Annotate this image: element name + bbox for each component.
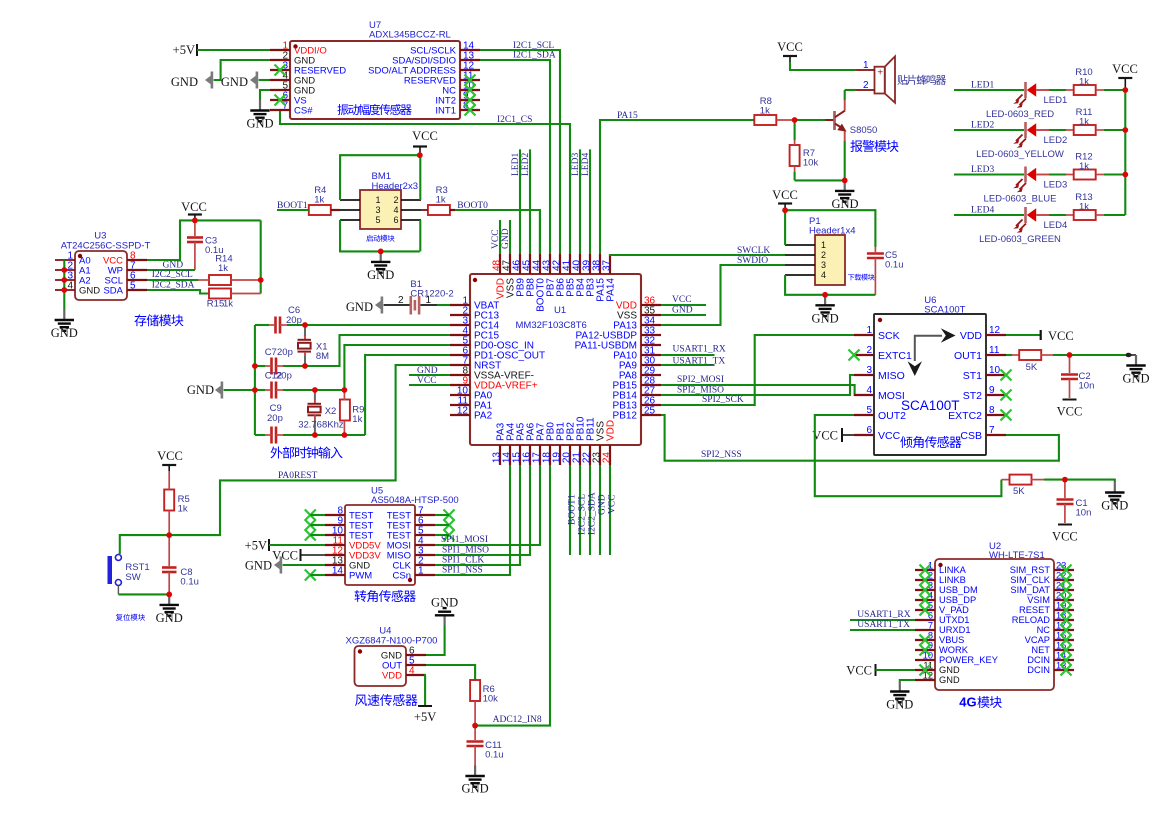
no-connect X U2.8 <box>920 635 931 646</box>
svg-text:6: 6 <box>866 425 872 436</box>
svg-text:XGZ6847-N100-P700: XGZ6847-N100-P700 <box>346 636 438 647</box>
wire osc left rail <box>254 325 256 435</box>
wire net SWCLK <box>610 254 785 255</box>
resistor R12 <box>1074 170 1096 180</box>
IC U5 body <box>345 505 415 585</box>
svg-text:+5V: +5V <box>245 539 267 553</box>
svg-text:LED2: LED2 <box>521 153 531 176</box>
wire net I2C2_SCL <box>579 465 581 555</box>
label alarm-module <box>850 140 898 152</box>
svg-text:GND: GND <box>367 268 394 282</box>
ground P1 <box>824 295 826 306</box>
svg-text:PA2: PA2 <box>474 411 493 422</box>
svg-text:1k: 1k <box>178 504 188 515</box>
wire U1.47 GND <box>509 220 511 254</box>
svg-text:VCC: VCC <box>491 229 501 249</box>
svg-text:PA15: PA15 <box>617 111 638 121</box>
wire LED vcc rail <box>1124 90 1126 215</box>
no-connect X U2.18 <box>1061 615 1072 626</box>
svg-text:20p: 20p <box>277 347 293 358</box>
svg-text:V_PAD: V_PAD <box>939 605 969 615</box>
wire sw bottom <box>118 593 169 595</box>
svg-text:12: 12 <box>989 325 1001 336</box>
svg-text:14: 14 <box>332 566 344 577</box>
P1 pins <box>785 244 815 246</box>
no-connect X U2.23 <box>1061 565 1072 576</box>
svg-text:PA14: PA14 <box>606 278 617 302</box>
no-connect X U7.8 <box>465 105 476 116</box>
svg-text:SPI1_CLK: SPI1_CLK <box>442 556 484 566</box>
svg-text:RELOAD: RELOAD <box>1012 615 1051 625</box>
wire led-res LED4 <box>1049 214 1066 216</box>
svg-text:EXTC1: EXTC1 <box>878 350 912 362</box>
ground C11 <box>474 766 476 777</box>
resistor R7 <box>790 145 800 166</box>
svg-text:VSIM: VSIM <box>1027 595 1050 605</box>
wire U1.23 gnd <box>599 465 601 555</box>
capacitor C8 <box>168 535 170 566</box>
svg-text:SCK: SCK <box>878 330 900 342</box>
ground BM1 <box>380 251 382 262</box>
header P1 body <box>815 235 845 285</box>
no-connect X U5.10 <box>305 530 316 541</box>
label smd-buzzer <box>897 75 946 85</box>
wire net I2C2_SDA <box>589 465 591 555</box>
svg-text:SDA: SDA <box>103 286 123 297</box>
no-connect X U2.9 <box>920 645 931 656</box>
svg-text:1k: 1k <box>223 299 233 310</box>
wire U4 gnd <box>426 625 445 655</box>
wire B1 gnd side <box>384 304 410 306</box>
svg-text:1k: 1k <box>436 195 446 206</box>
svg-text:POWER_KEY: POWER_KEY <box>939 655 998 665</box>
svg-text:ST2: ST2 <box>963 390 982 402</box>
svg-text:11: 11 <box>989 345 1000 356</box>
U6 left pins <box>854 334 874 336</box>
svg-text:AT24C256C-SSPD-T: AT24C256C-SSPD-T <box>61 241 151 252</box>
ground U7.5 <box>259 100 261 111</box>
no-connect X U7.3 <box>275 65 286 76</box>
svg-text:LED-0603_GREEN: LED-0603_GREEN <box>979 234 1061 245</box>
svg-text:GND: GND <box>462 782 489 796</box>
svg-text:LED4: LED4 <box>971 206 994 216</box>
wire net LED1 <box>519 149 521 254</box>
svg-text:NC: NC <box>1037 625 1051 635</box>
resistor R5 <box>164 490 174 511</box>
no-connect X U7.6 <box>275 95 286 106</box>
no-connect X U2.16 <box>1061 635 1072 646</box>
svg-text:32.768Khz: 32.768Khz <box>298 420 344 431</box>
wire U2.12 gnd <box>900 680 915 681</box>
LED LED4 <box>1024 207 1027 223</box>
svg-text:VCC: VCC <box>878 430 901 442</box>
svg-text:VCC: VCC <box>1057 405 1083 419</box>
svg-text:20p: 20p <box>276 371 292 382</box>
svg-text:0.1u: 0.1u <box>485 750 504 761</box>
wire net SPI2_NSS <box>661 415 1059 461</box>
U5 left pins <box>325 514 345 516</box>
svg-text:10k: 10k <box>483 694 499 705</box>
no-connect X U5.7 <box>444 510 455 521</box>
svg-text:SWDIO: SWDIO <box>737 256 768 266</box>
svg-text:GND: GND <box>598 494 608 515</box>
wire C6 to U1.3 <box>287 324 450 326</box>
no-connect X U2.14 <box>1061 655 1072 666</box>
svg-text:7: 7 <box>928 621 933 631</box>
svg-text:OUT1: OUT1 <box>954 350 982 362</box>
resistor R9 <box>340 400 350 421</box>
svg-text:1: 1 <box>418 566 424 577</box>
junction led3 <box>1122 172 1128 178</box>
svg-text:SPI1_MOSI: SPI1_MOSI <box>441 535 488 545</box>
svg-text:GND: GND <box>187 383 214 397</box>
junction R5 bottom <box>166 532 172 538</box>
IC U2 body <box>935 559 1054 690</box>
junction led2 <box>1122 127 1128 133</box>
svg-text:USB_DM: USB_DM <box>939 585 978 595</box>
U1 bottom pins <box>499 445 501 465</box>
svg-text:LED-0603_RED: LED-0603_RED <box>986 109 1054 120</box>
wire U4 out <box>426 665 475 680</box>
U1 left pins <box>450 304 470 306</box>
resistor R13 <box>1074 210 1096 220</box>
wire net BOOT1 <box>569 465 571 555</box>
svg-text:GND: GND <box>1122 372 1149 386</box>
svg-text:8: 8 <box>989 405 995 416</box>
wire osc bottom row <box>283 434 365 436</box>
svg-text:SPI2_MOSI: SPI2_MOSI <box>677 375 724 385</box>
svg-text:VCC: VCC <box>772 188 798 202</box>
junction BM1 gnd <box>378 249 384 255</box>
wire net I2C1_SCL <box>480 50 560 254</box>
label rotation-sensor <box>355 590 416 602</box>
svg-text:LED1: LED1 <box>511 153 521 176</box>
BM1 label boot-module <box>366 235 394 242</box>
junction C2 top <box>1067 352 1073 358</box>
capacitor C3 <box>194 220 196 236</box>
svg-text:4: 4 <box>67 281 73 292</box>
svg-text:10n: 10n <box>1079 381 1095 392</box>
U1 right pins <box>641 304 661 306</box>
svg-text:LED2: LED2 <box>971 121 994 131</box>
ground alarm <box>844 180 846 191</box>
svg-text:VCC: VCC <box>672 295 692 305</box>
wire X1 to U1.4 <box>283 335 450 366</box>
svg-text:NET: NET <box>1031 645 1050 655</box>
wire collector <box>844 90 846 100</box>
IC U6 body <box>874 314 986 455</box>
resistor R11 <box>1074 125 1096 135</box>
no-connect X U2.13 <box>1061 665 1072 676</box>
no-connect X U5.8 <box>305 510 316 521</box>
svg-text:VCAP: VCAP <box>1025 635 1050 645</box>
U7 label vibration-sensor <box>337 104 411 115</box>
no-connect X U5.14 <box>305 570 316 581</box>
svg-text:SWCLK: SWCLK <box>737 246 770 256</box>
wire U1.35 GND <box>661 314 706 316</box>
capacitor C2 <box>1069 355 1071 373</box>
svg-text:USART1_TX: USART1_TX <box>857 620 910 630</box>
svg-text:SIM_RST: SIM_RST <box>1010 565 1051 575</box>
svg-text:SPI1_NSS: SPI1_NSS <box>442 566 483 576</box>
wire P1 vcc rail <box>784 209 786 246</box>
wire net USART1_RX u2 <box>850 619 915 621</box>
svg-text:4: 4 <box>393 205 398 215</box>
svg-text:3: 3 <box>821 260 826 270</box>
svg-text:X2: X2 <box>325 406 337 417</box>
transistor Q1 S8050 <box>833 111 836 130</box>
wire U7.4 to GND <box>259 79 270 81</box>
wire U1.5 to R9 <box>344 345 450 390</box>
wire BM1 right rail <box>419 155 421 200</box>
U6 right pins <box>986 334 1006 336</box>
svg-text:LED-0603_YELLOW: LED-0603_YELLOW <box>976 149 1064 160</box>
svg-text:VCC: VCC <box>181 200 207 214</box>
no-connect X U7.11 <box>465 75 476 86</box>
svg-text:GND: GND <box>163 261 184 271</box>
svg-text:SPI1_MISO: SPI1_MISO <box>442 546 489 556</box>
svg-text:1k: 1k <box>1079 117 1089 128</box>
svg-text:S8050: S8050 <box>850 125 877 136</box>
ground out2 <box>1114 482 1116 493</box>
svg-text:USB_DP: USB_DP <box>939 595 976 605</box>
U3 left pins <box>55 259 75 261</box>
svg-text:DCIN: DCIN <box>1027 665 1050 675</box>
svg-text:USART1_RX: USART1_RX <box>673 345 726 355</box>
junction led1 <box>1122 87 1128 93</box>
svg-text:4: 4 <box>866 385 872 396</box>
resistor R10 <box>1074 85 1096 95</box>
svg-text:I2C2_SDA: I2C2_SDA <box>152 281 195 291</box>
no-connect X U6.10 <box>1001 370 1012 381</box>
svg-text:GND: GND <box>245 559 272 573</box>
junction U3 a2 <box>61 277 67 283</box>
svg-text:1: 1 <box>821 240 826 250</box>
no-connect X U2.21 <box>1061 585 1072 596</box>
svg-text:WORK: WORK <box>939 645 969 655</box>
svg-text:7: 7 <box>989 425 995 436</box>
svg-text:BOOT1: BOOT1 <box>568 494 578 525</box>
wire base <box>795 119 826 121</box>
junction R14 right <box>258 277 264 283</box>
svg-text:+5V: +5V <box>414 710 436 724</box>
wire net PA15 <box>600 120 754 254</box>
svg-text:GND: GND <box>51 326 78 340</box>
label wind-sensor <box>355 694 418 706</box>
svg-text:VCC: VCC <box>608 494 618 514</box>
no-connect X U6.9 <box>1001 390 1012 401</box>
no-connect X U7.10 <box>465 85 476 96</box>
capacitor C7 <box>270 358 273 375</box>
no-connect X U2.19 <box>1061 605 1072 616</box>
header BM1 body <box>360 190 401 229</box>
svg-text:GND: GND <box>79 286 100 297</box>
no-connect X U6.8 <box>1001 410 1012 421</box>
wire U1.24 vcc <box>609 465 611 555</box>
capacitor C6 <box>274 317 277 334</box>
junction X1 bottom <box>302 363 308 369</box>
svg-text:25: 25 <box>644 406 656 417</box>
junction U3 a1 <box>61 267 67 273</box>
svg-text:SIM_DAT: SIM_DAT <box>1010 585 1050 595</box>
capacitor C1 <box>1064 480 1066 498</box>
svg-text:SPI2_SCK: SPI2_SCK <box>702 395 744 405</box>
IC U1 body <box>470 274 641 445</box>
svg-text:VCC: VCC <box>417 376 437 386</box>
svg-text:SCA100T: SCA100T <box>924 305 965 316</box>
svg-text:5: 5 <box>130 281 136 292</box>
svg-text:ADC12_IN8: ADC12_IN8 <box>493 715 542 725</box>
svg-text:SW: SW <box>125 572 140 583</box>
wire out1 <box>1070 354 1126 356</box>
svg-text:GND: GND <box>156 611 183 625</box>
wire U3 left tie <box>63 260 65 310</box>
wire P1 gnd rail <box>785 275 875 295</box>
no-connect X U2.4 <box>920 595 931 606</box>
svg-text:Header1x4: Header1x4 <box>809 226 855 237</box>
svg-text:R15: R15 <box>207 299 224 310</box>
svg-text:+: + <box>877 68 883 79</box>
crystal X1 <box>304 325 306 336</box>
wire U6.5 out2 <box>815 415 1002 496</box>
LED LED3 <box>1024 167 1027 183</box>
no-connect X U2.3 <box>920 585 931 596</box>
wire emitter <box>844 141 846 180</box>
label ext-clock-input <box>270 446 342 458</box>
resistor R3 <box>428 205 450 215</box>
svg-text:10n: 10n <box>1076 508 1092 519</box>
wire net LED2 <box>954 129 1024 131</box>
no-connect X U2.17 <box>1061 625 1072 636</box>
junction C8 bottom <box>166 592 172 598</box>
svg-text:10: 10 <box>989 365 1001 376</box>
svg-text:CSn: CSn <box>393 571 411 582</box>
svg-text:2: 2 <box>866 345 872 356</box>
wire net I2C1_SDA <box>480 60 550 254</box>
no-connect X U2.22 <box>1061 575 1072 586</box>
IC U3 body <box>75 251 127 300</box>
svg-text:I2C2_SCL: I2C2_SCL <box>152 270 193 280</box>
svg-text:1k: 1k <box>1079 77 1089 88</box>
svg-text:BOOT1: BOOT1 <box>277 201 308 211</box>
junction U3 gnd <box>61 287 67 293</box>
junction X2 bottom <box>312 432 318 438</box>
svg-text:5K: 5K <box>1026 362 1038 373</box>
switch RST1 <box>108 556 113 584</box>
svg-text:VCC: VCC <box>846 664 872 678</box>
svg-text:LINKB: LINKB <box>939 575 966 585</box>
svg-text:WH-LTE-7S1: WH-LTE-7S1 <box>989 550 1045 561</box>
wire U4 vdd <box>424 675 427 705</box>
crystal X2 <box>314 390 316 400</box>
svg-text:37: 37 <box>602 259 613 271</box>
resistor R17 5K <box>1001 479 1010 481</box>
svg-text:LED2: LED2 <box>1044 135 1068 146</box>
LED LED1 <box>1024 82 1027 98</box>
junction P1 vcc <box>782 207 788 213</box>
svg-text:I2C2_SDA: I2C2_SDA <box>588 492 598 535</box>
svg-text:GND: GND <box>417 366 438 376</box>
junction rail C12 <box>252 387 258 393</box>
ground U3 <box>63 310 65 321</box>
svg-text:MM32F103C8T6: MM32F103C8T6 <box>516 320 587 331</box>
no-connect X U5.9 <box>305 520 316 531</box>
svg-text:VCC: VCC <box>272 549 298 563</box>
svg-text:VCC: VCC <box>1112 62 1138 76</box>
resistor R4 <box>309 205 331 215</box>
wire gnd to rail <box>224 389 255 391</box>
svg-text:+5V: +5V <box>173 43 195 57</box>
svg-text:GND: GND <box>939 675 960 685</box>
label download-module <box>848 274 875 281</box>
svg-text:VCC: VCC <box>1048 329 1074 343</box>
svg-text:CS#: CS# <box>294 106 313 117</box>
junction BM1 vcc <box>417 152 423 158</box>
speaker buzzer LS1 <box>875 67 885 94</box>
svg-text:USART1_TX: USART1_TX <box>673 357 726 367</box>
junction R9 top <box>342 387 348 393</box>
svg-text:GND: GND <box>246 117 273 131</box>
svg-text:ADXL345BCCZ-RL: ADXL345BCCZ-RL <box>369 30 451 41</box>
svg-text:GND: GND <box>939 665 960 675</box>
wire net LED3 <box>579 149 581 254</box>
capacitor C11 <box>474 726 476 740</box>
svg-text:VDD: VDD <box>382 671 402 682</box>
IC U7 body <box>290 41 460 119</box>
svg-text:LED1: LED1 <box>971 81 994 91</box>
svg-text:LED4: LED4 <box>1044 220 1068 231</box>
svg-text:CSB: CSB <box>960 430 982 442</box>
svg-text:5K: 5K <box>1013 486 1025 497</box>
svg-text:LED3: LED3 <box>571 153 581 176</box>
wire net LED4 <box>954 214 1024 216</box>
svg-text:4: 4 <box>409 666 415 677</box>
svg-text:6: 6 <box>393 215 398 225</box>
svg-text:SPI2_MISO: SPI2_MISO <box>677 386 724 396</box>
svg-text:SIM_CLK: SIM_CLK <box>1010 575 1051 585</box>
svg-text:1k: 1k <box>352 414 362 425</box>
svg-text:24: 24 <box>602 452 613 464</box>
no-connect X U6.2 <box>849 350 860 361</box>
wire net SPI1_CLK <box>435 465 520 565</box>
svg-text:1: 1 <box>866 325 872 336</box>
wire U1.8 GND <box>409 374 450 376</box>
wire net SPI2_SCK <box>661 335 858 405</box>
wire led-res LED1 <box>1049 89 1066 91</box>
svg-text:PA0REST: PA0REST <box>278 471 317 481</box>
wire B1 to U1.1 <box>421 304 438 306</box>
svg-text:GND: GND <box>831 197 858 211</box>
svg-text:4: 4 <box>821 270 826 280</box>
svg-text:VDD: VDD <box>606 420 617 441</box>
svg-text:PWM: PWM <box>349 571 372 582</box>
svg-text:1k: 1k <box>1079 202 1089 213</box>
BM1 pins <box>340 199 360 201</box>
junction X2 top <box>312 387 318 393</box>
svg-text:CR1220-2: CR1220-2 <box>410 289 453 300</box>
svg-text:Header2x3: Header2x3 <box>372 181 418 192</box>
U5 right pins <box>415 514 435 516</box>
svg-text:LED-0603_BLUE: LED-0603_BLUE <box>984 194 1057 205</box>
wire net SPI1_MOSI <box>435 465 540 545</box>
no-connect X U2.5 <box>920 605 931 616</box>
wire U7.2 to GND <box>214 60 270 80</box>
junction P1 gnd <box>822 292 828 298</box>
svg-text:GND: GND <box>431 596 458 610</box>
wire U1.48 VCC <box>499 220 501 254</box>
wire net I2C1_CS <box>280 111 570 254</box>
svg-text:GND: GND <box>221 75 248 89</box>
